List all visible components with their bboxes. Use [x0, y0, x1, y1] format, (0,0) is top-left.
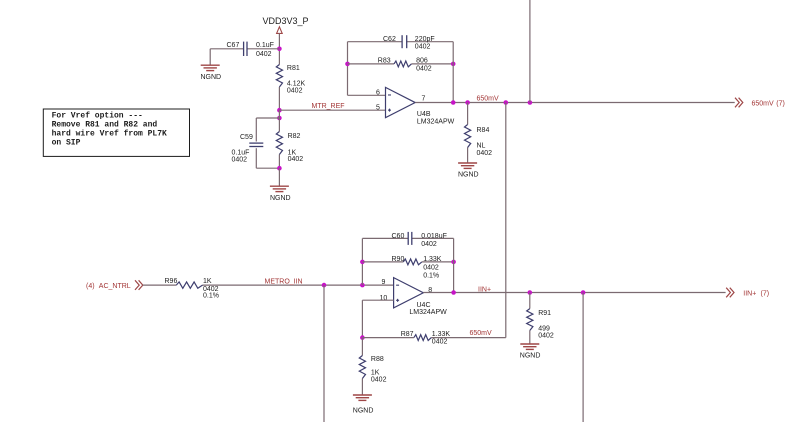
capacitor C59 0.1uF 0402: [232, 134, 264, 163]
svg-text:hard wire Vref from PL7K: hard wire Vref from PL7K: [52, 130, 167, 139]
svg-text:0.1%: 0.1%: [423, 273, 439, 280]
wire vertical to top edge: [529, 0, 531, 103]
wire C67 branch: [210, 49, 279, 65]
svg-text:MTR_REF: MTR_REF: [312, 103, 345, 110]
svg-text:IIN+: IIN+: [478, 287, 491, 294]
ground NGND under R91: [520, 344, 541, 360]
svg-text:499: 499: [538, 325, 550, 332]
svg-text:C59: C59: [240, 134, 253, 141]
node R82/C59 bottom junction: [277, 166, 282, 171]
node R84 tap junction: [465, 100, 470, 105]
ground NGND under R88: [353, 395, 374, 414]
svg-text:1.33K: 1.33K: [423, 256, 442, 263]
resistor R87 1.33K 0402: [401, 331, 451, 345]
svg-text:NL: NL: [477, 143, 486, 150]
wire MTR_REF to U4B pin 5: [279, 109, 385, 111]
svg-text:R81: R81: [287, 65, 300, 72]
node R83 left junction: [345, 62, 350, 67]
capacitor C67 0.1uF 0402: [227, 42, 274, 58]
wire feedback right vertical U4C: [453, 238, 455, 292]
svg-text:R91: R91: [538, 310, 551, 317]
svg-text:IIN+: IIN+: [743, 290, 756, 297]
node R91 tap junction: [528, 290, 533, 295]
svg-text:R83: R83: [378, 58, 391, 65]
svg-text:U4C: U4C: [417, 302, 431, 309]
svg-text:VDD3V3_P: VDD3V3_P: [263, 16, 309, 26]
svg-text:1.33K: 1.33K: [432, 331, 451, 338]
svg-text:0402: 0402: [415, 44, 431, 51]
op-amp U4B LM324APW: [376, 87, 455, 125]
net label 650mV: [477, 95, 500, 102]
svg-text:806: 806: [416, 58, 428, 65]
ground NGND under C67: [201, 65, 222, 81]
svg-text:650mV: 650mV: [752, 101, 775, 108]
resistor R91 499 0402: [527, 293, 554, 344]
svg-text:R82: R82: [288, 133, 301, 140]
svg-text:AC_NTRL: AC_NTRL: [99, 283, 131, 290]
note box For Vref option: [43, 109, 189, 156]
svg-text:0.1%: 0.1%: [203, 293, 219, 300]
wire C62 row: [348, 41, 454, 43]
wire C59 branch: [256, 118, 279, 168]
svg-text:R96: R96: [165, 278, 178, 285]
node R90 left junction: [360, 260, 365, 265]
wire VDD3V3_P down to R81: [278, 33, 280, 64]
wire C60 row: [362, 237, 453, 239]
svg-text:650mV: 650mV: [477, 95, 500, 102]
svg-text:0.1uF: 0.1uF: [256, 42, 274, 49]
svg-text:C62: C62: [383, 36, 396, 43]
svg-text:6: 6: [376, 89, 380, 96]
node IIN+ down-line junction: [581, 290, 586, 295]
svg-text:0.1uF: 0.1uF: [232, 149, 250, 156]
resistor R90 1.33K 0402 0.1%: [392, 256, 442, 280]
resistor R83 806 0402: [378, 58, 432, 73]
svg-text:0402: 0402: [287, 88, 303, 95]
wire feedback left vertical U4B: [348, 42, 386, 96]
svg-text:5: 5: [376, 105, 380, 112]
svg-text:650mV: 650mV: [470, 330, 493, 337]
power symbol VDD3V3_P: [263, 16, 309, 33]
node junction C67 tap: [277, 47, 282, 52]
net label 650mV bottom: [470, 330, 493, 337]
svg-text:R90: R90: [392, 256, 405, 263]
wire 650mV feedback vertical down: [505, 103, 507, 338]
resistor R84 NL 0402: [465, 103, 493, 163]
node R90 right junction: [451, 260, 456, 265]
net label MTR_REF: [312, 103, 345, 110]
wire U4B output 650mV row: [415, 102, 735, 104]
node feedback output junction U4C: [451, 290, 456, 295]
resistor R82 1K 0402: [276, 132, 303, 164]
node feedback left junction U4C: [360, 283, 365, 288]
capacitor C60 0.018uF 0402: [392, 232, 447, 248]
ground NGND under R84: [458, 163, 479, 178]
wire feedback left vertical U4C: [361, 238, 363, 285]
wire vertical to bottom edge from METRO_IIN: [323, 285, 325, 422]
node 650mV feedback-down junction: [504, 100, 509, 105]
wire R81 to MTR_REF node: [278, 87, 280, 110]
resistor R96 1K 0402 0.1%: [165, 278, 219, 300]
wire R82 bottom lead: [278, 155, 280, 169]
svg-text:NGND: NGND: [270, 195, 291, 202]
wire vertical to bottom edge from IIN+: [582, 293, 584, 422]
node R83 right junction: [451, 62, 456, 67]
wire R82 top lead: [278, 110, 280, 131]
svg-text:1K: 1K: [203, 278, 212, 285]
wire to ground under R82: [278, 168, 280, 186]
svg-text:For Vref option ---: For Vref option ---: [52, 112, 143, 121]
svg-text:7: 7: [422, 96, 426, 103]
svg-text:(7): (7): [761, 290, 770, 297]
svg-text:on SIP: on SIP: [52, 139, 81, 148]
net label IIN+: [478, 287, 491, 294]
svg-text:LM324APW: LM324APW: [409, 309, 447, 316]
svg-text:0402: 0402: [256, 51, 272, 58]
resistor R81 4.12K 0402: [276, 65, 305, 95]
capacitor C62 220pF 0402: [383, 35, 435, 50]
svg-text:0402: 0402: [477, 150, 493, 157]
wire R83 row: [348, 63, 454, 65]
svg-text:NGND: NGND: [458, 171, 479, 178]
wire R96 to U4C pin 9: [203, 284, 394, 286]
node R87/R88 junction: [360, 335, 365, 340]
svg-text:0402: 0402: [288, 156, 304, 163]
svg-text:NGND: NGND: [201, 74, 222, 81]
svg-text:0402: 0402: [432, 338, 448, 345]
svg-text:C67: C67: [227, 42, 240, 49]
wire R90 row: [362, 261, 453, 263]
node MTR_REF junction: [277, 108, 282, 113]
svg-text:NGND: NGND: [520, 353, 541, 360]
node METRO_IIN junction: [322, 283, 327, 288]
off-page connector IIN+ (7): [726, 288, 769, 298]
net label METRO_IIN: [265, 279, 303, 286]
wire R87 row 650mV: [362, 337, 505, 339]
svg-text:0402: 0402: [538, 332, 554, 339]
node top-vertical junction: [528, 100, 533, 105]
node C59 top junction: [277, 116, 282, 121]
svg-text:220pF: 220pF: [415, 36, 435, 43]
svg-text:0402: 0402: [416, 66, 432, 73]
svg-text:LM324APW: LM324APW: [417, 119, 455, 126]
resistor R88 1K 0402: [359, 338, 386, 395]
svg-text:NGND: NGND: [353, 407, 374, 414]
wire feedback right vertical U4B: [452, 42, 454, 103]
svg-text:R88: R88: [371, 356, 384, 363]
svg-text:U4B: U4B: [417, 111, 431, 118]
svg-text:R87: R87: [401, 331, 414, 338]
off-page connector 650mV (7): [735, 98, 785, 108]
svg-text:(4): (4): [86, 283, 95, 290]
svg-text:0402: 0402: [232, 156, 248, 163]
off-page connector (4) AC_NTRL: [86, 280, 143, 290]
wire U4C output IIN+ row: [423, 292, 725, 294]
svg-text:0402: 0402: [371, 376, 387, 383]
svg-text:9: 9: [382, 279, 386, 286]
svg-text:R84: R84: [477, 127, 490, 134]
svg-text:(7): (7): [776, 101, 785, 108]
svg-text:METRO_IIN: METRO_IIN: [265, 279, 303, 286]
wire U4C pin 10 lead: [362, 300, 393, 337]
node feedback output junction: [451, 100, 456, 105]
wire AC_NTRL to R96: [143, 284, 177, 286]
svg-text:0402: 0402: [421, 241, 437, 248]
svg-text:0.018uF: 0.018uF: [421, 233, 447, 240]
op-amp U4C LM324APW: [380, 278, 448, 317]
ground NGND under R82: [270, 186, 291, 202]
svg-text:C60: C60: [392, 233, 405, 240]
svg-text:Remove R81 and R82 and: Remove R81 and R82 and: [52, 121, 158, 130]
svg-text:0402: 0402: [423, 265, 439, 272]
